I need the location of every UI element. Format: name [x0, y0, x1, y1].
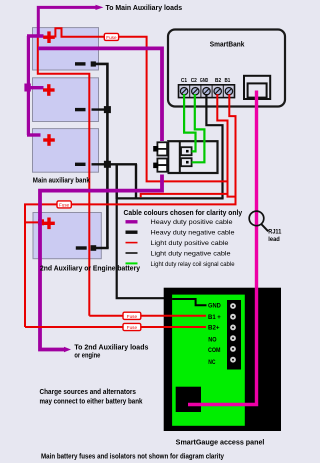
wire battery2 negative stub — [92, 108, 109, 110]
wire magenta RJ11 lead — [188, 91, 257, 405]
heavy purple positive main run battery1 to relay and lower left — [38, 48, 162, 349]
svg-text:Light duty relay coil signal c: Light duty relay coil signal cable — [151, 261, 235, 268]
relay stud terminal 2 — [157, 159, 167, 166]
relay divider — [179, 141, 181, 173]
relay coil spade 2 — [181, 158, 192, 166]
node purple blob battery2 — [24, 84, 30, 92]
svg-text:COM: COM — [208, 347, 221, 354]
SmartGauge access panel black housing — [164, 288, 281, 431]
wire light-duty negative GND run to access panel — [117, 164, 224, 298]
svg-text:SmartBank: SmartBank — [210, 42, 245, 49]
fuse F1 top — [104, 33, 118, 40]
wire red SmartBank B1 to lower-left — [25, 94, 236, 327]
wire red battery2 + tap down left side — [38, 34, 90, 316]
svg-text:GND: GND — [208, 303, 221, 310]
svg-text:Main auxiliary bank: Main auxiliary bank — [33, 178, 90, 185]
relay stud mask — [153, 141, 168, 175]
arrowhead to 2nd auxiliary loads — [64, 347, 71, 352]
legend swatch light negative — [126, 252, 138, 254]
wire purple battery2 + stub — [27, 86, 44, 89]
svg-text:RJ11: RJ11 — [268, 230, 282, 236]
battery B1 (main aux bank top) — [33, 28, 99, 70]
svg-text:SmartGauge access panel: SmartGauge access panel — [176, 440, 265, 447]
wire battery4 negative stub — [91, 247, 109, 249]
svg-text:Cable colours chosen for clari: Cable colours chosen for clarity only — [124, 210, 243, 217]
battery B3 — [33, 129, 99, 173]
relay stud terminal 1 — [157, 142, 167, 149]
wire red battery4 + tap — [25, 221, 44, 223]
wire purple battery1 + stub — [27, 34, 44, 37]
access panel green PCB — [172, 295, 245, 426]
svg-text:lead: lead — [268, 237, 280, 243]
relay coil spade 1 — [181, 147, 192, 155]
svg-text:or engine: or engine — [74, 353, 100, 360]
RJ11 coil loop symbol — [249, 211, 264, 226]
access panel connector box — [176, 387, 201, 412]
legend swatch relay coil — [126, 262, 138, 264]
svg-text:Main battery fuses and isolato: Main battery fuses and isolators not sho… — [41, 453, 224, 460]
legend swatch light positive — [126, 242, 138, 244]
svg-text:To 2nd Auxiliary loads: To 2nd Auxiliary loads — [74, 344, 148, 351]
wire red fused feed to panel B1+ — [89, 315, 206, 317]
SmartBank unit box — [168, 30, 285, 107]
arrowhead to main auxiliary loads — [96, 5, 104, 10]
svg-text:NO: NO — [208, 337, 216, 344]
legend swatch heavy positive — [126, 220, 138, 223]
heavy black negative bus — [92, 64, 107, 248]
battery minus symbols — [75, 64, 87, 248]
svg-text:B1: B1 — [225, 78, 231, 84]
svg-text:B2+: B2+ — [208, 324, 220, 331]
wire red fused feed to panel B2+ — [25, 326, 206, 328]
battery plus symbols — [43, 31, 55, 229]
wire purple up to main auxiliary loads — [38, 7, 96, 37]
svg-text:B2: B2 — [215, 78, 221, 84]
svg-text:B1 +: B1 + — [208, 314, 221, 321]
relay main box — [168, 141, 217, 173]
svg-text:Fuse: Fuse — [127, 325, 138, 330]
heavy purple chain for battery + terminals — [27, 36, 30, 135]
SmartBank terminal block — [179, 85, 235, 98]
fuse F2 mid left — [57, 201, 71, 208]
svg-text:Light duty positive cable: Light duty positive cable — [151, 240, 229, 247]
node battery4 + blob — [38, 219, 44, 225]
svg-text:To Main Auxiliary loads: To Main Auxiliary loads — [106, 5, 183, 12]
terminal screws — [180, 88, 232, 95]
svg-text:C1: C1 — [181, 78, 187, 84]
svg-text:C2: C2 — [191, 78, 197, 84]
svg-text:Heavy duty positive cable: Heavy duty positive cable — [151, 219, 234, 226]
wire red sense link — [141, 194, 228, 197]
svg-text:Fuse: Fuse — [106, 35, 117, 40]
svg-text:Fuse: Fuse — [127, 314, 138, 319]
wire GND jog on PCB — [172, 299, 206, 305]
node battery2 negative blob — [104, 106, 111, 113]
svg-text:may connect to either battery: may connect to either battery bank — [40, 398, 143, 405]
battery B2 — [33, 78, 99, 122]
wire green C2 to relay coil — [192, 94, 205, 162]
wire red SmartBank B2 — [217, 94, 235, 197]
node battery4 negative blob — [91, 245, 97, 251]
node battery3 negative blob — [104, 161, 111, 168]
battery B4 (2nd auxiliary / engine battery) — [33, 213, 101, 259]
svg-text:Fuse: Fuse — [59, 202, 70, 207]
wire battery3 negative stub and branch to GND net — [92, 164, 138, 199]
RJ11 socket on SmartBank — [244, 76, 270, 99]
svg-text:Charge sources and alternators: Charge sources and alternators — [40, 389, 137, 396]
svg-text:Light duty negative cable: Light duty negative cable — [151, 250, 232, 257]
wire red from battery1 + through top fuse to relay feed — [55, 28, 227, 181]
legend swatch heavy negative — [126, 230, 138, 233]
wire green C1 to relay coil — [184, 94, 195, 151]
fuse F3 lower — [123, 312, 141, 319]
svg-text:NC: NC — [208, 359, 215, 366]
fuse F4 lower — [123, 323, 141, 330]
access panel terminal strip — [227, 300, 241, 370]
node battery1 negative blob — [91, 61, 96, 66]
wire purple battery3 + stub — [27, 133, 41, 136]
wire SmartBank GND down — [206, 94, 222, 198]
svg-text:2nd Auxiliary or Engine batter: 2nd Auxiliary or Engine battery — [40, 266, 140, 273]
svg-text:GND: GND — [200, 78, 208, 84]
svg-text:Heavy duty negative cable: Heavy duty negative cable — [151, 230, 235, 237]
